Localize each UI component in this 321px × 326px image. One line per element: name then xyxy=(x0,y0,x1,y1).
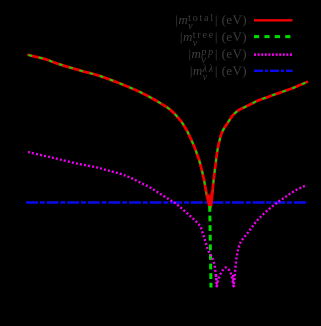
red total curve xyxy=(29,55,308,208)
wire xyxy=(26,20,308,287)
legend row 3: |m_nu^pp| (eV) xyxy=(189,47,248,65)
magenta pp curve xyxy=(28,152,306,286)
legend row 4: |m_nu^lambda-lambda| (eV) xyxy=(190,64,247,82)
legend green sample xyxy=(254,35,293,38)
legend row 2: |m_nu^tree| (eV) xyxy=(180,30,247,48)
magenta pp right minimum column xyxy=(232,275,235,287)
legend magenta sample xyxy=(254,53,293,56)
legend row 1: |m_nu^total| (eV) xyxy=(175,13,247,31)
green tree vertical plunge xyxy=(210,206,211,288)
blue lambda-lambda horizontal line xyxy=(26,201,308,204)
legend red sample xyxy=(254,19,293,21)
legend blue sample xyxy=(254,70,293,72)
green tree dashes on red curve xyxy=(29,55,308,208)
red total cusp tip xyxy=(208,191,212,207)
magenta pp left minimum column xyxy=(215,275,218,287)
